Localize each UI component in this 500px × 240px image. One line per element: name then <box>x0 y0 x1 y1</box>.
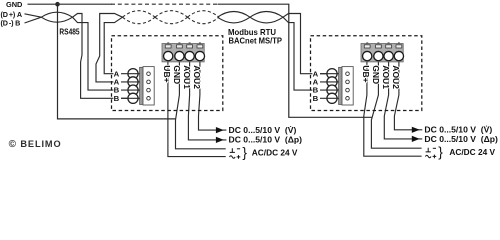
wire stubs label to ring <box>121 73 140 75</box>
wire GND bus (solid, then dashed continuation, then to device 2) <box>28 4 372 117</box>
wire into terminal B2 of device 1 <box>73 14 114 99</box>
left connector plug A A B B <box>128 67 154 105</box>
wire GND to supply minus and bus gnd <box>371 62 421 148</box>
wire GND drop to device 1 <box>58 4 176 119</box>
svg-text:AOU2: AOU2 <box>391 65 401 89</box>
wire UB+ to 24V supply <box>168 62 226 157</box>
symbol earth/minus for supply <box>230 148 241 159</box>
svg-text:BACnet MS/TP: BACnet MS/TP <box>229 36 283 46</box>
svg-text:DC 0...5/10 V (Δp): DC 0...5/10 V (Δp) <box>424 134 498 144</box>
twisted pair solid eyes to device 2 <box>218 12 251 18</box>
svg-text:AOU2: AOU2 <box>192 65 202 89</box>
symbol ~ / plus for supply <box>230 156 236 159</box>
svg-text:B: B <box>313 94 319 103</box>
terminal labels A A B B <box>313 69 319 103</box>
wire UB+ to 24V supply <box>364 62 422 156</box>
svg-text:UB+: UB+ <box>162 65 172 82</box>
RS485 twisted pair bus <box>25 11 328 99</box>
wire into terminal B1 of device 2 <box>283 17 312 90</box>
device 1 output wiring <box>168 62 227 157</box>
pin labels UB+ GND AOU1 AOU2 (rotated) <box>162 65 202 89</box>
symbol earth/minus for supply <box>425 148 436 159</box>
svg-text:DC 0...5/10 V (V̇): DC 0...5/10 V (V̇) <box>229 125 297 135</box>
svg-text:}: } <box>242 145 247 160</box>
svg-text:DC 0...5/10 V (V̇): DC 0...5/10 V (V̇) <box>424 124 492 134</box>
symbol ~ / plus for supply <box>425 155 431 158</box>
svg-text:AC/DC 24 V: AC/DC 24 V <box>449 147 495 157</box>
svg-text:GND: GND <box>172 65 182 84</box>
wire B (D-) into device 1 area <box>25 17 42 23</box>
device outline (dashed box) <box>112 36 223 111</box>
top connector plug <box>361 42 404 62</box>
wire into terminal B1 of device 1 <box>73 17 114 90</box>
arrowhead output 2 <box>216 137 224 143</box>
wire AOU2 to output arrow 1 <box>394 62 422 130</box>
wire from terminal A2 of device 1 back to bus <box>96 14 123 82</box>
svg-text:GND: GND <box>6 0 23 9</box>
wire into terminal A1 of device 2 <box>283 14 312 74</box>
top connector plug <box>162 42 205 62</box>
svg-text:(D +) A: (D +) A <box>1 10 22 19</box>
terminal labels A A B B <box>114 69 120 103</box>
wire AOU1 to output arrow 2 <box>384 62 422 139</box>
junction node on GND bus <box>55 2 60 7</box>
svg-text:UB+: UB+ <box>361 65 371 82</box>
svg-text:AOU1: AOU1 <box>182 65 192 89</box>
arrowhead output 1 <box>216 127 224 133</box>
svg-text:}: } <box>438 145 443 160</box>
svg-text:(D -) B: (D -) B <box>1 19 21 28</box>
svg-text:AC/DC 24 V: AC/DC 24 V <box>252 147 298 157</box>
arrowhead output 1 <box>412 127 420 133</box>
pin labels UB+ GND AOU1 AOU2 (rotated) <box>361 65 401 89</box>
wire A (D+) into device 1 area <box>25 14 42 17</box>
device outline (dashed box) <box>311 36 422 111</box>
wire AOU1 to output arrow 2 <box>188 62 226 140</box>
left connector plug A A B B <box>327 67 353 105</box>
svg-text:GND: GND <box>371 65 381 84</box>
svg-text:B: B <box>114 94 120 103</box>
svg-text:DC 0...5/10 V (Δp): DC 0...5/10 V (Δp) <box>229 135 303 145</box>
wire AOU2 to output arrow 1 <box>199 62 227 130</box>
arrowhead output 2 <box>412 136 420 142</box>
svg-text:AOU1: AOU1 <box>381 65 391 89</box>
wire GND to supply minus and bus gnd <box>176 62 226 149</box>
device 2 output wiring <box>364 62 423 156</box>
svg-text:RS485: RS485 <box>59 27 80 36</box>
svg-text:©: © <box>9 139 17 150</box>
wire from terminal A1 of device 1 back to bus <box>104 17 122 73</box>
wire stubs label to ring <box>320 73 339 75</box>
svg-text:BELIMO: BELIMO <box>20 139 61 149</box>
twisted pair continuation (dashed) <box>123 11 220 24</box>
